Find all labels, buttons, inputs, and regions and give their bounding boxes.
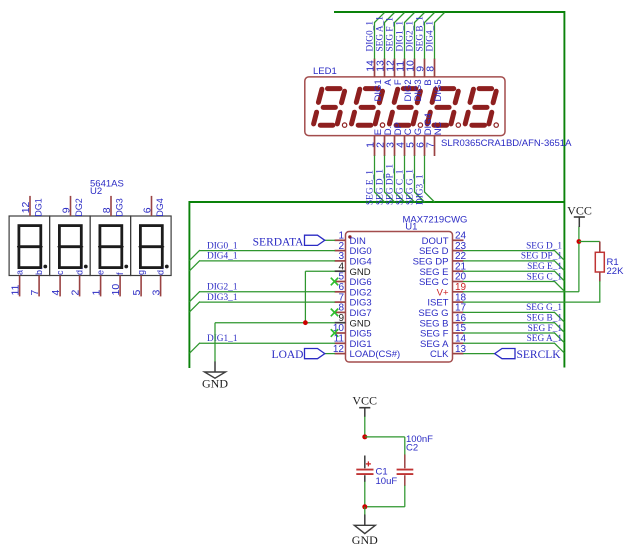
display U2 digit 2 body (50, 216, 91, 276)
svg-text:SEG A_1: SEG A_1 (375, 16, 385, 52)
svg-text:SEG E_1: SEG E_1 (365, 170, 375, 205)
net label DIG3_1 (207, 293, 238, 303)
junction dot (VCC / R1) (577, 239, 582, 244)
U1 pin 24 (DOUT) stub and labels (422, 231, 467, 247)
U1 pin 15 (SEG F) stub and labels (420, 323, 467, 339)
LED1 digit 5 (figure 8) (465, 89, 498, 128)
svg-text:7: 7 (29, 290, 41, 296)
wire: middle horizontal net at y=202 from left vertical to right vertical (189, 201, 564, 203)
svg-text:DIG4_1: DIG4_1 (207, 252, 238, 262)
U1 pin 12 (LOAD(CS#)) stub and labels (333, 344, 400, 360)
svg-text:SEG B_1: SEG B_1 (527, 314, 563, 324)
U2 top pin 12 (DG1) (20, 196, 44, 217)
wire U1 pin 3 to left net with 45-deg entry (189, 260, 335, 271)
LED1 digit 2 (figure 8) (352, 89, 385, 128)
net label DIG3_1 (vertical) (415, 174, 425, 205)
U2 bottom pin 7 (b.) (29, 267, 44, 296)
svg-text:SERDATA: SERDATA (253, 237, 305, 249)
wire U1 pin 20 to right net with 45-deg entry (463, 281, 564, 291)
U1 pin 8 no-connect X mark (331, 309, 338, 317)
svg-text:f: f (115, 272, 125, 275)
wire: right vertical net (segment bus down right side) (563, 11, 565, 368)
IC U1 reference (405, 222, 417, 233)
net label SEG C_1 (vertical) (395, 169, 405, 205)
IC U1 part name MAX7219CWG (403, 215, 468, 226)
terminal LOAD (272, 349, 325, 362)
U1 pin 19 (V+) stub and labels (437, 282, 467, 298)
svg-text:DG3: DG3 (115, 198, 125, 217)
display LED1 body (305, 77, 505, 136)
LED1 pin 11 (DIG2) with wire to top net (394, 13, 414, 102)
svg-text:SEG C_1: SEG C_1 (527, 272, 563, 282)
svg-text:SEG DP_1: SEG DP_1 (521, 252, 562, 262)
svg-text:DIG2_1: DIG2_1 (405, 21, 415, 52)
svg-text:1: 1 (90, 290, 102, 296)
U1 pin 1 (DIN) stub and labels (335, 231, 367, 247)
ground symbol (bottom) (352, 515, 378, 548)
U2 bottom pin 11 (a) (9, 270, 24, 296)
net label SEG A_1 (527, 334, 563, 344)
display U2 digit 3 body (90, 216, 131, 276)
U2 top pin 9 (DG2) (60, 196, 84, 217)
C1 reference label (376, 466, 388, 477)
wire SERDATA terminal to U1 pin 1 (325, 239, 336, 241)
U2 bottom pin 1 (e) (90, 270, 105, 296)
U1 pin 1 indicator dot (348, 235, 351, 238)
U1 pin 8 (DIG7) stub and labels (335, 303, 372, 319)
svg-text:d.: d. (156, 267, 166, 275)
net label SEG B_1 (527, 314, 563, 324)
junction dot (top of caps) (362, 434, 367, 439)
LED1 digit 3 (figure 8) (389, 89, 422, 128)
U1 pin 17 (SEG G) stub and labels (418, 303, 466, 319)
U2 bottom pin 3 (d.) (150, 267, 165, 296)
R1 value 22K (607, 266, 625, 277)
op-amp/IC U1 body (346, 232, 453, 363)
wire U1 pin 14 to right net with 45-deg entry (463, 343, 564, 353)
LED1 digit 1 (figure 8) (314, 89, 347, 128)
svg-text:SEG DP_1: SEG DP_1 (385, 164, 395, 205)
svg-text:10: 10 (110, 284, 122, 296)
U1 pin 21 (SEG E) stub and labels (419, 261, 466, 277)
wire C1 bottom to bottom junction (364, 482, 366, 508)
svg-text:C2: C2 (406, 442, 418, 453)
net label DIG2_1 (vertical) (405, 21, 415, 52)
svg-text:GND: GND (352, 533, 378, 547)
net label SEG G_1 (526, 303, 562, 313)
LED1 pin 14 (DIG1) with wire to top net (364, 13, 384, 102)
LED1 pin 8 (DIG5) with wire to top net (424, 13, 444, 102)
wire U1 pin 22 to right net with 45-deg entry (463, 260, 564, 270)
wire C2 bottom to bottom junction (365, 486, 405, 507)
svg-text:DIG4_1: DIG4_1 (425, 21, 435, 52)
svg-text:e: e (96, 270, 106, 275)
U1 pin 18 (ISET) stub and labels (427, 292, 466, 308)
net label DIG1_1 (vertical) (395, 21, 405, 52)
U2 top pin 6 (DG4) (141, 196, 165, 217)
terminal SERCLK (495, 349, 562, 361)
svg-text:DIG5: DIG5 (433, 79, 444, 101)
svg-text:VCC: VCC (567, 204, 592, 218)
net label SEG F_1 (528, 324, 563, 334)
net label SEG B_1 (vertical) (415, 16, 425, 52)
wire U1 pin 23 to right net with 45-deg entry (463, 250, 564, 260)
net label SEG G_1 (vertical) (405, 169, 415, 205)
C2 value 100nF (406, 434, 433, 445)
U1 pin 9 (GND) stub and labels (335, 313, 371, 329)
wire U1 pin 15 to right net with 45-deg entry (463, 333, 564, 343)
junction dot (bottom of caps) (362, 504, 367, 509)
power symbol VCC (right) (567, 204, 592, 228)
svg-text:12: 12 (20, 201, 32, 213)
svg-text:2: 2 (69, 290, 81, 296)
net label DIG2_1 (207, 283, 238, 293)
net label DIG0_1 (vertical) (365, 21, 375, 52)
svg-text:NC: NC (433, 121, 444, 135)
net label DIG1_1 (207, 334, 238, 344)
svg-text:DIG0_1: DIG0_1 (207, 241, 238, 251)
svg-text:b.: b. (34, 267, 44, 275)
LED1 pin 4 (C) with wire to middle net (394, 128, 414, 202)
U1 pin 3 (DIG4) stub and labels (335, 251, 372, 267)
svg-text:SEG G_1: SEG G_1 (405, 169, 415, 205)
svg-text:a: a (15, 270, 25, 275)
wire VCC to top junction (364, 417, 366, 438)
wire U1 pin 7 to left net with 45-deg entry (189, 302, 335, 313)
U2 bottom pin 2 (d.) (69, 267, 84, 296)
svg-text:GND: GND (202, 377, 228, 391)
svg-text:DIG1_1: DIG1_1 (395, 21, 405, 52)
svg-text:DG4: DG4 (155, 198, 165, 217)
U1 pin 11 (DIG1) stub and labels (334, 334, 372, 350)
svg-text:11: 11 (9, 284, 21, 295)
svg-text:SEG G_1: SEG G_1 (526, 303, 562, 313)
svg-text:DIG2_1: DIG2_1 (207, 283, 238, 293)
capacitor C2 (100nF) (397, 455, 414, 487)
U2 bottom pin 4 (c) (50, 270, 65, 296)
svg-text:CLK: CLK (430, 349, 449, 360)
svg-text:LED1: LED1 (313, 66, 337, 77)
wire R1 bottom to ISET row (599, 281, 601, 302)
svg-text:5: 5 (131, 290, 143, 296)
LED1 pin 9 (B) with wire to top net (414, 13, 434, 86)
net label DIG4_1 (207, 252, 238, 262)
svg-text:DIG3_1: DIG3_1 (207, 293, 238, 303)
R1 reference label (607, 257, 619, 268)
svg-text:DG2: DG2 (74, 198, 84, 217)
wire U1 pin 13 CLK to SERCLK terminal (463, 353, 495, 355)
svg-text:22K: 22K (607, 266, 625, 277)
power symbol VCC (bottom) (352, 394, 377, 418)
display U2 digit 4 body (131, 216, 172, 276)
svg-text:g: g (136, 270, 146, 275)
svg-text:LOAD(CS#): LOAD(CS#) (350, 349, 401, 360)
U1 pin 10 (DIG5) stub and labels (333, 323, 372, 339)
LED1 pin 10 (DIG3) with wire to top net (404, 13, 424, 102)
svg-text:SEG A_1: SEG A_1 (527, 334, 563, 344)
LED1 reference label (313, 66, 337, 77)
svg-text:DIG0_1: DIG0_1 (365, 21, 375, 52)
LED1 pin 5 (G) with wire to middle net (404, 128, 424, 202)
svg-text:9: 9 (60, 207, 72, 213)
wire U1 pin 2 to left net with 45-deg entry (189, 250, 335, 261)
ground symbol (left) (202, 362, 228, 391)
U2 top pin 8 (DG3) (101, 196, 125, 217)
U1 pin 22 (SEG DP) stub and labels (413, 251, 467, 267)
svg-text:SEG B_1: SEG B_1 (415, 16, 425, 52)
net label SEG DP_1 (521, 252, 562, 262)
wire U1 pin 6 to left net with 45-deg entry (189, 291, 335, 302)
wire U1 pin 17 to right net with 45-deg entry (463, 312, 564, 322)
U2 bottom pin 10 (f) (110, 272, 125, 296)
svg-text:DIG1_1: DIG1_1 (207, 334, 238, 344)
net label SEG C_1 (527, 272, 563, 282)
svg-text:DG1: DG1 (34, 198, 44, 217)
net label SEG DP_1 (vertical) (385, 164, 395, 205)
wire junction to R1 top (579, 241, 600, 243)
svg-text:LOAD: LOAD (272, 349, 304, 361)
svg-text:d.: d. (75, 267, 85, 275)
display U2 digit 1 body (9, 216, 50, 276)
U2 bottom pin 5 (g) (131, 270, 146, 296)
wire: top horizontal net from LED1 top pins to right vertical net (334, 11, 565, 13)
svg-text:4: 4 (50, 290, 62, 296)
svg-text:SEG D_1: SEG D_1 (526, 241, 562, 251)
LED1 pin 12 (F) with wire to top net (384, 13, 404, 86)
C2 reference label (406, 442, 418, 453)
svg-text:SLR0365CRA1BD/AFN-3651A: SLR0365CRA1BD/AFN-3651A (441, 138, 572, 149)
svg-text:c: c (55, 270, 65, 275)
svg-text:8: 8 (101, 207, 113, 213)
net label SEG F_1 (vertical) (385, 17, 395, 52)
U1 pin 6 (DIG2) stub and labels (335, 282, 372, 298)
U2 reference (90, 186, 102, 197)
svg-text:VCC: VCC (352, 394, 377, 408)
wire: left vertical net (digit bus down left side) (188, 201, 190, 368)
U1 pin 2 (DIG0) stub and labels (335, 241, 372, 257)
U2 part value 5641AS (90, 179, 124, 190)
net label SEG A_1 (vertical) (375, 16, 385, 52)
wire U1 pin 16 to right net with 45-deg entry (463, 322, 564, 332)
svg-text:SERCLK: SERCLK (517, 349, 562, 361)
net label SEG E_1 (527, 262, 562, 272)
resistor R1 (595, 242, 604, 282)
wire U1 pin 9 GND to ground symbol (215, 323, 335, 362)
wire U1 pin 18 ISET to R1 (463, 301, 600, 303)
C1 value 10uF (376, 476, 398, 487)
wire VCC symbol down to V+ row (578, 227, 580, 292)
svg-text:SEG D_1: SEG D_1 (375, 169, 385, 205)
U1 pin 10 no-connect X mark (331, 329, 338, 337)
U1 pin 16 (SEG B) stub and labels (419, 313, 466, 329)
junction dot (GND pins) (303, 320, 308, 325)
U1 pin 4 (GND) stub and labels (335, 261, 371, 277)
svg-text:6: 6 (141, 207, 153, 213)
wire U1 pin 21 to right net with 45-deg entry (463, 271, 564, 281)
svg-text:SEG C_1: SEG C_1 (395, 169, 405, 205)
capacitor C1 (electrolytic 10uF) (356, 456, 373, 483)
LED1 pin 13 (A) with wire to top net (374, 13, 394, 86)
net label SEG D_1 (vertical) (375, 169, 385, 205)
net label DIG0_1 (207, 241, 238, 251)
LED1 digit 4 (figure 8) (427, 89, 460, 128)
wire top junction to C2 branch (365, 437, 405, 455)
wire U1 pin 11 to left net with 45-deg entry (189, 343, 335, 354)
terminal SERDATA (253, 235, 325, 248)
svg-text:3: 3 (150, 290, 162, 296)
U1 pin 14 (SEG A) stub and labels (420, 334, 467, 350)
net label DIG4_1 (vertical) (425, 21, 435, 52)
U1 pin 5 no-connect X mark (331, 278, 338, 286)
wire bottom junction to ground (364, 507, 366, 515)
svg-text:SEG F_1: SEG F_1 (385, 17, 395, 52)
svg-text:10uF: 10uF (376, 476, 398, 487)
LED1 pin 6 (DIG4) with wire to middle net (414, 113, 434, 202)
LED1 part value SLR0365CRA1BD/AFN-3651A (441, 138, 572, 149)
U1 pin 5 (DIG6) stub and labels (335, 272, 372, 288)
wire U1 pin 19 V+ to VCC rail (463, 291, 579, 293)
wire U1 pin 4 GND left then down to pin 9 row (305, 271, 335, 323)
LED1 pin 1 (E) with wire to middle net (364, 129, 384, 202)
U1 pin 23 (SEG D) stub and labels (419, 241, 467, 257)
svg-text:SEG E_1: SEG E_1 (527, 262, 562, 272)
LED1 pin 7 (NC) not connected (424, 121, 444, 156)
net label SEG D_1 (526, 241, 562, 251)
svg-text:7: 7 (424, 142, 436, 148)
U1 pin 20 (SEG C) stub and labels (419, 272, 467, 288)
svg-text:8: 8 (424, 66, 436, 72)
U1 pin 7 (DIG3) stub and labels (335, 292, 372, 308)
svg-text:DIG3_1: DIG3_1 (415, 174, 425, 205)
svg-text:U2: U2 (90, 186, 102, 197)
svg-text:SEG F_1: SEG F_1 (528, 324, 563, 334)
LED1 pin 3 (DP) with wire to middle net (384, 122, 404, 202)
wire LOAD terminal to U1 pin 12 (325, 353, 336, 355)
U1 pin 13 (CLK) stub and labels (430, 344, 467, 360)
net label SEG E_1 (vertical) (365, 170, 375, 205)
LED1 pin 2 (D.) with wire to middle net (374, 126, 394, 202)
